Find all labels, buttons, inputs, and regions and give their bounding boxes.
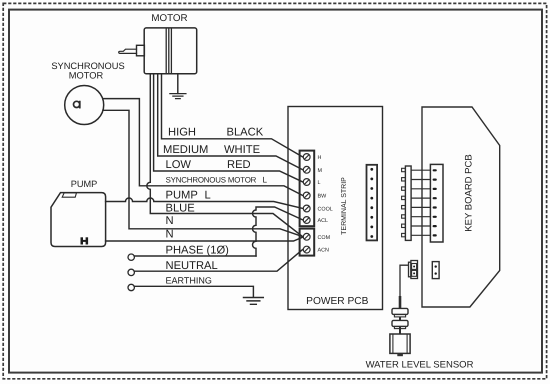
float switch washer 2 bbox=[394, 326, 405, 328]
svg-text:N: N bbox=[166, 215, 174, 227]
svg-text:H: H bbox=[318, 155, 322, 161]
terminal labels bbox=[318, 155, 333, 254]
svg-text:BLUE: BLUE bbox=[166, 202, 195, 214]
power PCB board outline bbox=[288, 107, 383, 310]
svg-text:WATER LEVEL SENSOR: WATER LEVEL SENSOR bbox=[366, 360, 474, 371]
ribbon connector J1 (comb) bbox=[402, 166, 412, 240]
svg-text:EARTHING: EARTHING bbox=[166, 275, 212, 285]
svg-text:L: L bbox=[263, 175, 268, 184]
ground symbol (motor) bbox=[170, 94, 186, 99]
motor shaft bbox=[119, 49, 137, 53]
motor shaft step block bbox=[137, 45, 145, 56]
svg-text:PUMP: PUMP bbox=[71, 179, 98, 189]
svg-text:M: M bbox=[318, 168, 323, 174]
wire: synchronous motor L to BW bbox=[103, 99, 303, 196]
float switch stem nut 1 bbox=[392, 308, 408, 314]
svg-text:PHASE (1Ø): PHASE (1Ø) bbox=[166, 244, 230, 256]
svg-text:KEY BOARD PCB: KEY BOARD PCB bbox=[464, 154, 475, 231]
motor ground wire bbox=[177, 74, 179, 94]
wire: pump N to COM bbox=[106, 237, 303, 241]
ribbon connector J2 on key board PCB bbox=[430, 164, 443, 242]
svg-text:BLACK: BLACK bbox=[227, 126, 264, 138]
wire: phase line bbox=[134, 255, 256, 257]
float switch threaded rod bbox=[399, 296, 402, 308]
svg-text:HIGH: HIGH bbox=[168, 126, 196, 138]
svg-text:MOTOR: MOTOR bbox=[69, 70, 104, 80]
svg-text:N: N bbox=[166, 228, 174, 240]
motor M1 body bbox=[144, 28, 197, 74]
terminal strip block 1 bbox=[300, 151, 315, 227]
pump P1 body bbox=[51, 193, 106, 247]
terminal strip block 2 bbox=[300, 229, 315, 256]
svg-text:ACL: ACL bbox=[318, 218, 329, 224]
node: neutral input terminal bbox=[128, 269, 134, 275]
connector strip on power PCB bbox=[367, 165, 378, 241]
pump outlet notch bbox=[62, 193, 76, 197]
wire: motor HIGH bbox=[162, 74, 303, 157]
synchronous motor inner coil glyph bbox=[74, 101, 80, 107]
terminal screws H M L BW COOL ACL COM ACN bbox=[303, 154, 310, 253]
svg-text:RED: RED bbox=[227, 159, 251, 171]
float switch nut 2 bbox=[392, 320, 408, 326]
svg-text:LOW: LOW bbox=[166, 159, 192, 171]
ribbon wires to key board bbox=[411, 170, 431, 235]
svg-text:SYNCHRONOUS MOTOR: SYNCHRONOUS MOTOR bbox=[166, 175, 257, 184]
svg-text:WHITE: WHITE bbox=[224, 144, 260, 156]
svg-text:PUMP: PUMP bbox=[166, 189, 198, 201]
ground symbol (earthing) bbox=[244, 298, 264, 305]
wire: synchronous motor N bbox=[103, 110, 303, 236]
float bottom stub bbox=[397, 353, 403, 356]
connector pins (dots) bbox=[370, 168, 373, 238]
sensor connector J3 on key board PCB bbox=[432, 262, 439, 279]
wire: pump L to COOL (hops over two verticals) bbox=[106, 198, 303, 208]
water level sensor connector bbox=[409, 261, 418, 279]
node: earthing input terminal bbox=[128, 284, 134, 290]
svg-text:COM: COM bbox=[318, 235, 331, 241]
svg-text:MOTOR: MOTOR bbox=[151, 13, 187, 24]
wire: motor MEDIUM bbox=[158, 74, 303, 170]
svg-text:L: L bbox=[318, 180, 321, 186]
float switch rod bbox=[399, 317, 401, 334]
svg-text:BW: BW bbox=[318, 194, 328, 200]
svg-text:ACN: ACN bbox=[318, 248, 329, 254]
key board PCB outline bbox=[422, 107, 500, 307]
wire: phase riser to ACL with hops bbox=[253, 207, 303, 256]
float switch washer 1 bbox=[394, 314, 405, 317]
svg-text:COOL: COOL bbox=[318, 207, 333, 213]
motor winding separator lines bbox=[166, 29, 171, 73]
node: phase input terminal bbox=[128, 254, 134, 260]
svg-text:MEDIUM: MEDIUM bbox=[163, 144, 208, 156]
svg-text:L: L bbox=[205, 189, 211, 201]
wire: earthing bbox=[134, 286, 253, 297]
wire: neutral to ACN bbox=[134, 250, 302, 272]
svg-text:TERMINAL STRIP: TERMINAL STRIP bbox=[341, 177, 348, 235]
float body bbox=[390, 334, 410, 353]
svg-text:NEUTRAL: NEUTRAL bbox=[166, 260, 218, 272]
synchronous motor body bbox=[65, 86, 104, 125]
wire: motor common BLUE with hop over sync wire bbox=[147, 74, 303, 237]
svg-text:POWER PCB: POWER PCB bbox=[306, 296, 368, 307]
pump impeller glyph bbox=[81, 237, 89, 244]
wire: motor LOW bbox=[154, 74, 303, 182]
terminal screw slots bbox=[305, 155, 309, 252]
wire: sensor cable bbox=[400, 265, 409, 308]
